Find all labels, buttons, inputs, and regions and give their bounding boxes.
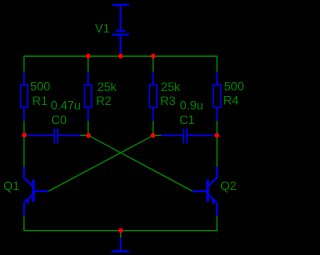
- svg-text:V1: V1: [95, 21, 110, 35]
- svg-text:500: 500: [30, 80, 50, 94]
- wire stub to R3: [152, 56, 154, 72]
- node R2 / C0 / Q2 base: [86, 133, 91, 138]
- svg-text:R1: R1: [32, 94, 48, 108]
- node top rail / R3: [151, 54, 156, 59]
- wire right drop to R4: [216, 56, 218, 72]
- wire top rail: [24, 55, 217, 57]
- resistor R3: [150, 72, 157, 121]
- wire C1 left stub: [153, 134, 161, 136]
- capacitor C1: [161, 129, 214, 144]
- node top rail / battery: [118, 54, 123, 59]
- battery V1: [112, 5, 129, 56]
- node R4 / C1 / Q2 collector: [215, 133, 220, 138]
- wire cross diagonal to Q2 base: [89, 136, 193, 192]
- node bottom rail / ground: [118, 228, 123, 233]
- wire R1 bottom to collector node: [23, 121, 25, 167]
- wire left drop to R1: [23, 56, 25, 72]
- svg-text:500: 500: [224, 80, 244, 94]
- svg-text:0.47u: 0.47u: [51, 99, 81, 113]
- wire R2 bottom: [87, 121, 89, 135]
- svg-text:C1: C1: [180, 113, 196, 127]
- transistor Q1: [24, 167, 49, 217]
- node R1 / C0 / Q1 collector: [22, 133, 27, 138]
- wire bottom rail: [24, 230, 217, 232]
- wire C0 right stub: [80, 134, 89, 136]
- wire cross diagonal to Q1 base: [49, 136, 154, 192]
- svg-text:0.9u: 0.9u: [180, 99, 203, 113]
- ground: [111, 238, 129, 252]
- wire stub to R2: [87, 56, 89, 72]
- svg-text:25k: 25k: [161, 80, 181, 94]
- resistor R1: [21, 72, 28, 121]
- node top rail / R2: [86, 54, 91, 59]
- transistor Q2: [193, 167, 218, 217]
- svg-text:Q2: Q2: [220, 179, 236, 193]
- resistor R2: [85, 72, 92, 121]
- svg-text:R4: R4: [223, 93, 239, 107]
- resistor R4: [213, 72, 220, 121]
- wire Q2 emitter to bottom rail: [216, 216, 218, 231]
- svg-text:C0: C0: [51, 113, 67, 127]
- svg-text:R2: R2: [96, 94, 112, 108]
- wire R3 bottom: [152, 121, 154, 135]
- wire R4 bottom to collector node: [216, 121, 218, 167]
- wire ground stub: [120, 231, 122, 238]
- wire Q1 emitter to bottom rail: [23, 216, 25, 231]
- svg-text:Q1: Q1: [3, 179, 19, 193]
- node R3 / C1 / Q1 base: [151, 133, 156, 138]
- capacitor C0: [28, 129, 81, 144]
- svg-text:25k: 25k: [97, 80, 117, 94]
- svg-text:R3: R3: [160, 94, 176, 108]
